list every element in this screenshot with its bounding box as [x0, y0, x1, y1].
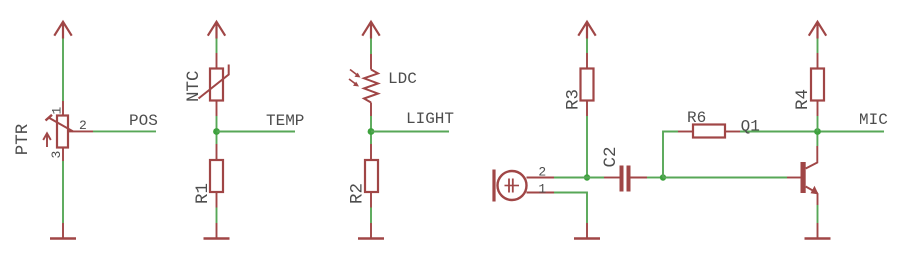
- svg-text:POS: POS: [129, 112, 158, 130]
- junction dot base node: [660, 174, 666, 180]
- microphone pin 2 stub: [527, 177, 555, 179]
- wire net to R4: [817, 39, 819, 54]
- svg-text:R4: R4: [793, 89, 813, 110]
- svg-text:R6: R6: [687, 109, 706, 127]
- svg-text:MIC: MIC: [859, 111, 888, 129]
- potentiometer wiper diagonal and screwdriver flag: [46, 115, 74, 132]
- junction dot collector node: [814, 128, 821, 135]
- potentiometer body R PTR: [57, 116, 68, 148]
- net TEMP wire: [217, 131, 296, 133]
- net LIGHT wire: [371, 131, 449, 133]
- svg-text:LDC: LDC: [388, 70, 417, 88]
- net POS wire: [93, 130, 156, 132]
- wire net to LDR: [370, 39, 372, 55]
- resistor R3 pin stub top: [586, 53, 588, 69]
- wire net LIGHT vertical: [370, 116, 372, 144]
- thermistor NTC body: [210, 69, 223, 101]
- ground GND5 (Q1): [805, 223, 831, 239]
- potentiometer pin 2 stub: [68, 130, 93, 132]
- wire net to R3: [586, 39, 588, 54]
- junction dot TEMP node: [213, 128, 220, 135]
- wire net base node up to R6: [663, 132, 678, 178]
- thermistor NTC pin stub bottom: [216, 101, 218, 117]
- wire net Q1 collector to node: [816, 132, 818, 147]
- photoresistor LDC pin stub top: [370, 54, 372, 70]
- net MIC wire horizontal: [740, 131, 884, 133]
- photoresistor LDC zigzag body: [364, 70, 378, 103]
- photoresistor LDC pin stub bottom: [370, 103, 372, 117]
- junction dot LIGHT node: [368, 128, 375, 135]
- photoresistor light arrow 1: [350, 70, 361, 78]
- svg-text:PTR: PTR: [13, 123, 33, 155]
- resistor R1 body: [210, 160, 223, 192]
- wire net Q1 emitter to ground: [817, 205, 819, 223]
- wire net to NTC: [216, 39, 218, 54]
- resistor R3 pin stub bottom: [586, 101, 588, 117]
- resistor R2 pin stub top: [370, 144, 372, 160]
- thermistor NTC pin stub top: [216, 53, 218, 69]
- resistor R3 body: [581, 69, 594, 101]
- supply arrow VCC2 (column 2 top): [208, 22, 225, 39]
- supply arrow VCC3 (column 3 top): [362, 22, 379, 39]
- resistor R1 pin stub top: [216, 144, 218, 160]
- resistor R6 pin stub right: [725, 131, 740, 133]
- svg-text:C2: C2: [601, 146, 621, 167]
- svg-text:R2: R2: [348, 183, 368, 204]
- thermistor NTC diagonal mark: [199, 65, 229, 99]
- wire net R2 to ground: [370, 208, 372, 224]
- ground GND1: [50, 223, 76, 239]
- microphone MIC1 body: [494, 170, 527, 202]
- resistor R4 body: [811, 69, 824, 101]
- wire net R4 to collector node: [817, 116, 819, 132]
- microphone pin 1 stub: [527, 192, 555, 194]
- resistor R2 pin stub bottom: [370, 192, 372, 208]
- svg-text:NTC: NTC: [184, 70, 204, 102]
- wire net mic pin1 to ground: [554, 193, 587, 224]
- wire net C2 to base node: [647, 177, 663, 179]
- resistor R6 body: [693, 125, 725, 138]
- wire net R1 to ground: [216, 208, 218, 224]
- ground GND3: [358, 223, 384, 239]
- transistor Q1 base pin stub: [787, 177, 801, 179]
- resistor R6 pin stub left: [678, 131, 693, 133]
- wire net R3 to mic node: [586, 116, 588, 178]
- potentiometer pin 3 stub: [62, 148, 64, 162]
- potentiometer R(PTR) pin 1 stub: [62, 101, 64, 116]
- svg-text:Q1: Q1: [741, 117, 760, 135]
- wire net base wire to Q1: [663, 177, 787, 179]
- potentiometer adjust arrow: [43, 133, 51, 147]
- capacitor C2: [604, 166, 647, 192]
- wire net mic pin2 to junction: [554, 177, 604, 179]
- ground GND2: [204, 223, 230, 239]
- svg-text:3: 3: [49, 151, 64, 159]
- svg-text:LIGHT: LIGHT: [406, 110, 454, 128]
- photoresistor light arrow 2: [349, 79, 359, 87]
- wire net pot pin3 to ground: [62, 161, 64, 223]
- supply arrow VCC5 (R4 column top): [809, 22, 826, 39]
- svg-text:2: 2: [538, 165, 546, 180]
- svg-text:1: 1: [538, 181, 546, 196]
- resistor R1 pin stub bottom: [216, 192, 218, 208]
- supply arrow VCC4 (R3 column top): [578, 22, 595, 39]
- transistor Q1 body (NPN): [801, 146, 819, 205]
- resistor R2 body: [365, 160, 378, 192]
- resistor R4 pin stub bottom: [817, 101, 819, 117]
- supply arrow VCC1 (column 1 top): [54, 22, 71, 39]
- svg-text:1: 1: [50, 107, 65, 115]
- wire net to potentiometer pin 1: [62, 39, 64, 102]
- svg-text:R3: R3: [563, 89, 583, 110]
- resistor R4 pin stub top: [817, 53, 819, 69]
- junction dot mic node: [584, 174, 590, 180]
- ground GND4 (mic): [574, 223, 600, 239]
- svg-text:TEMP: TEMP: [266, 112, 304, 130]
- svg-text:R1: R1: [193, 183, 213, 204]
- wire net TEMP vertical: [216, 116, 218, 144]
